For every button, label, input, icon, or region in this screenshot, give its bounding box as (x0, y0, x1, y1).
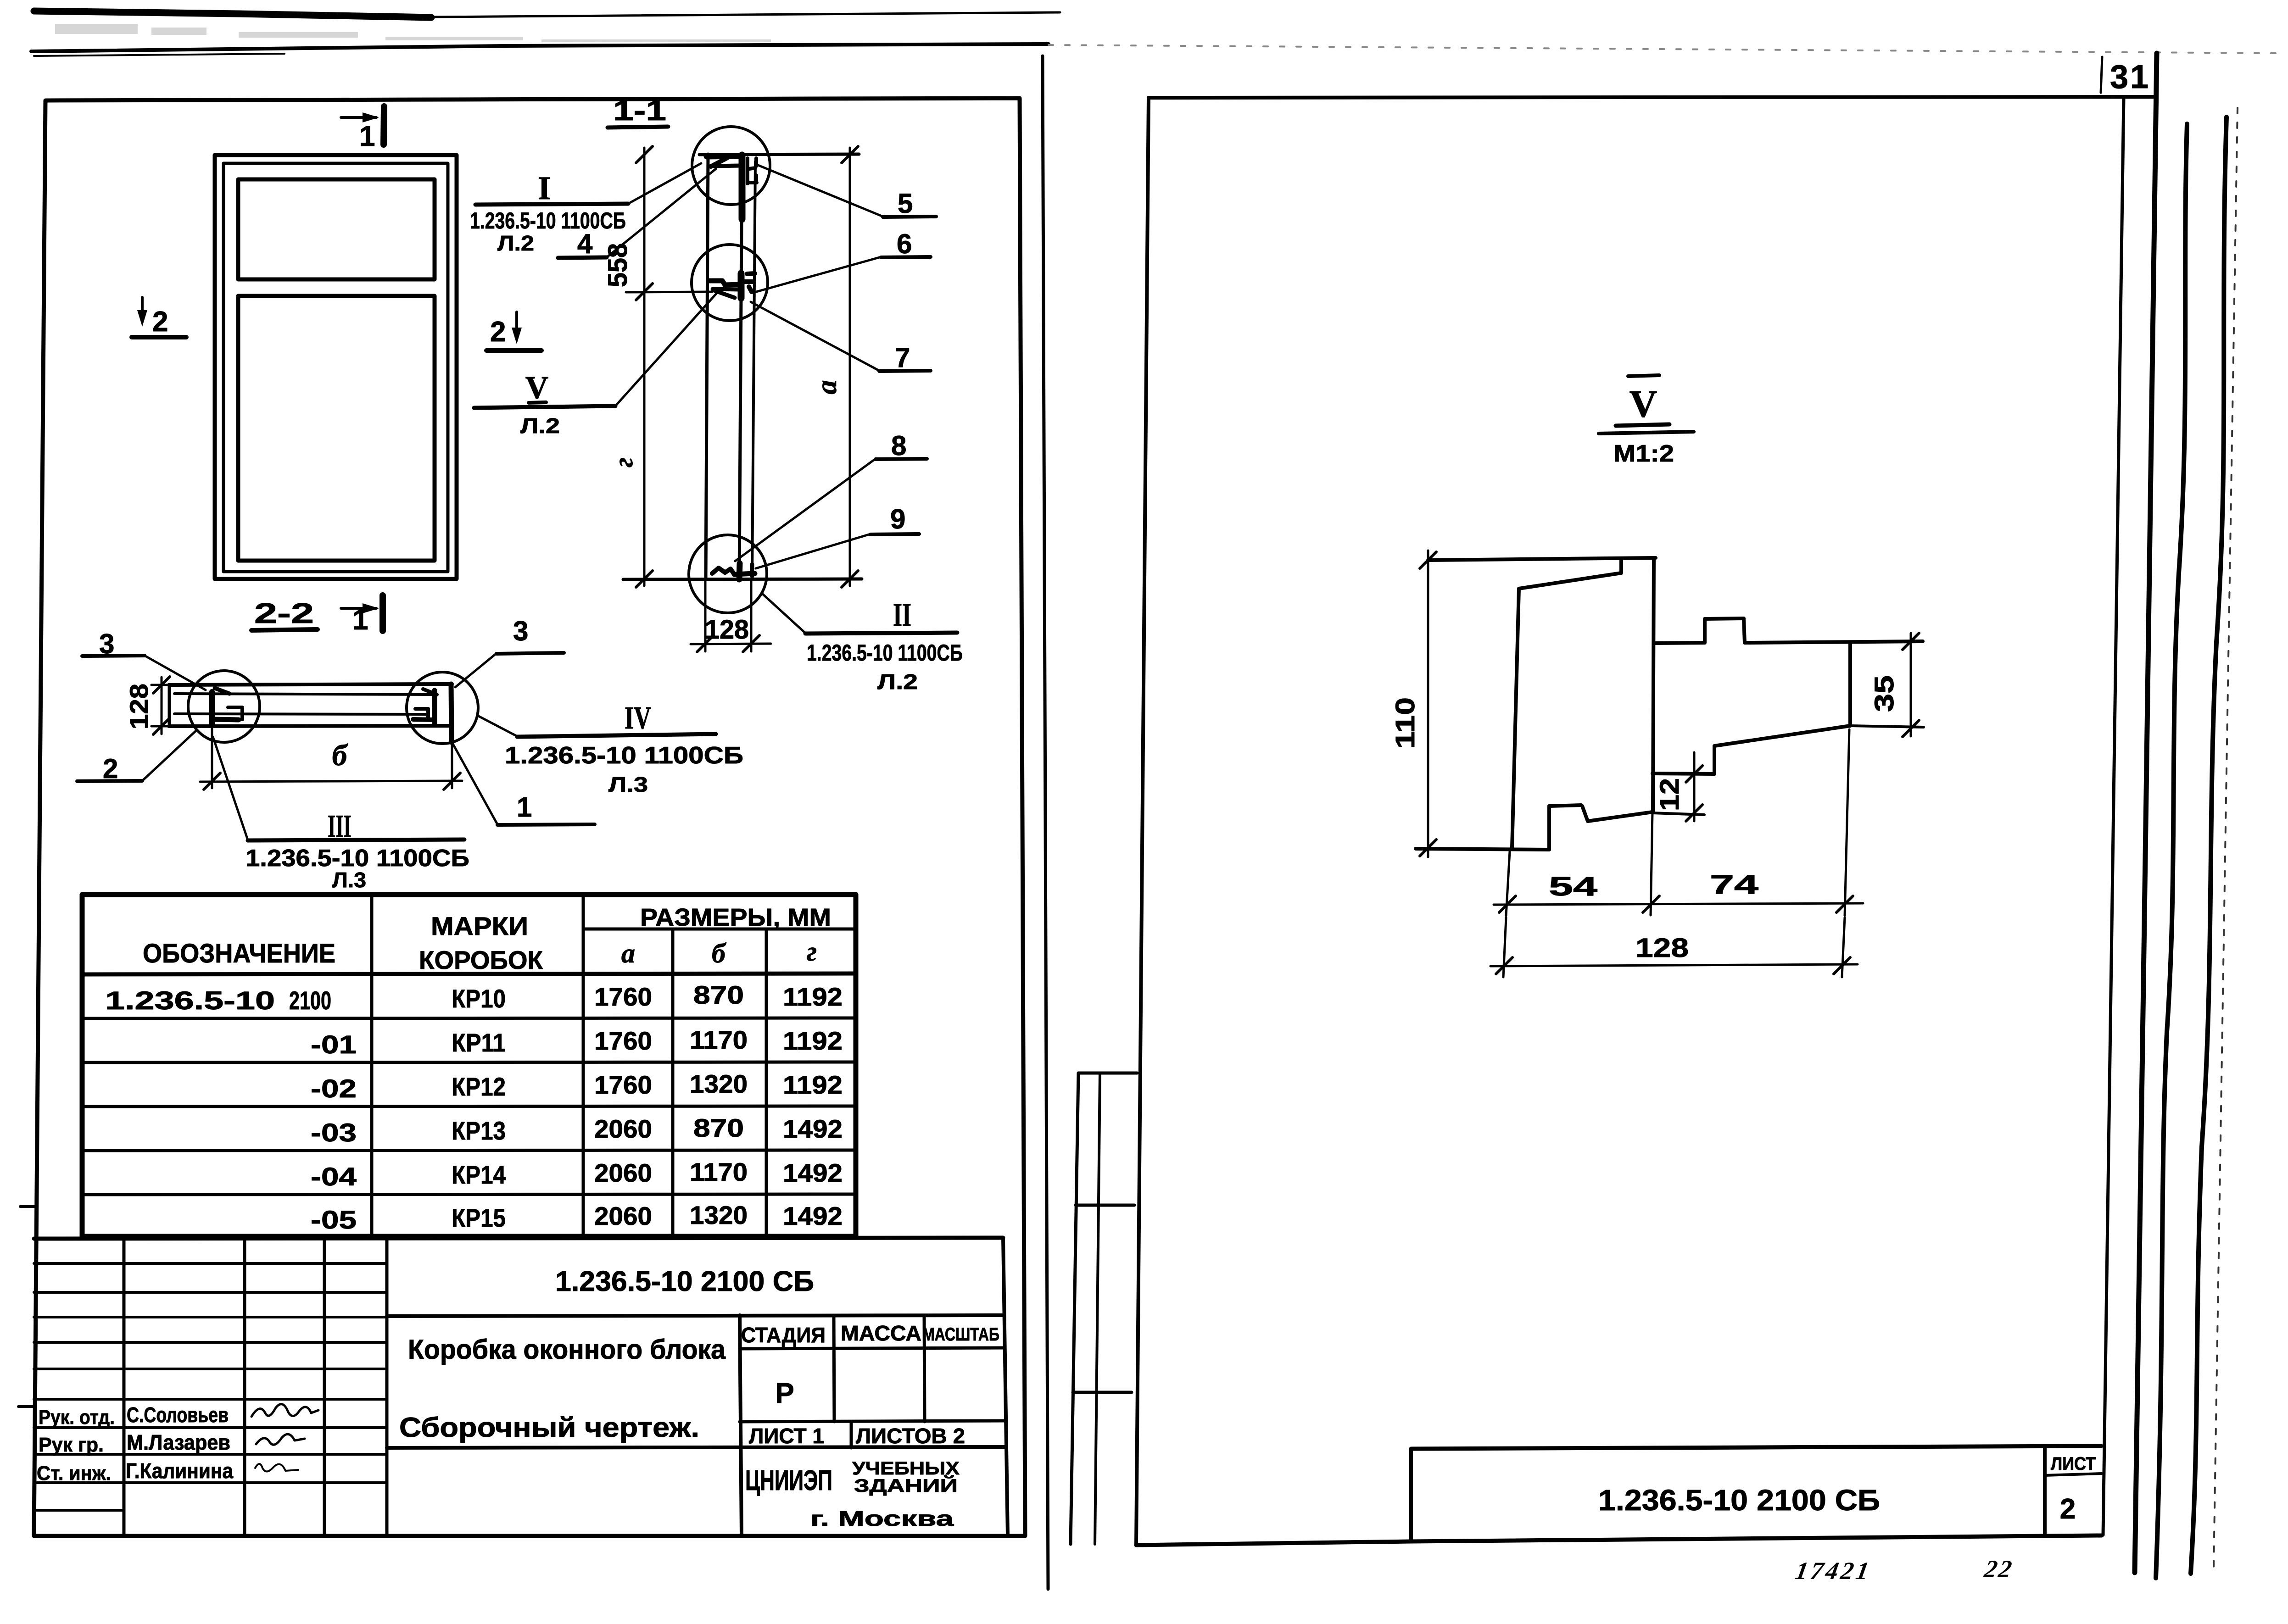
svg-text:КР12: КР12 (452, 1072, 506, 1101)
svg-text:КР13: КР13 (452, 1116, 506, 1145)
svg-text:1492: 1492 (783, 1201, 843, 1230)
svg-text:-02: -02 (311, 1074, 357, 1103)
fold tick lower (18, 1405, 35, 1408)
fold tick upper (20, 1205, 35, 1208)
right title list box divider (2045, 1474, 2102, 1475)
left dimension line (558 / г) (643, 148, 646, 586)
svg-text:КР11: КР11 (452, 1028, 506, 1057)
position 2 underline (77, 781, 142, 781)
svg-text:2100: 2100 (289, 986, 331, 1015)
svg-text:-03: -03 (311, 1118, 357, 1147)
left block bump top (1549, 805, 1581, 806)
right detail circle (407, 672, 478, 744)
dim 54/74 right extension (1845, 729, 1849, 916)
svg-text:г: г (608, 457, 638, 467)
svg-text:Л.2: Л.2 (877, 670, 918, 694)
top detail circle (692, 127, 770, 205)
right block bottom extension for 35 (1850, 726, 1924, 727)
svg-text:870: 870 (693, 980, 744, 1009)
svg-text:558: 558 (603, 243, 633, 287)
svg-text:1170: 1170 (690, 1157, 748, 1186)
left dim tick bottom (636, 571, 653, 587)
svg-text:870: 870 (693, 1113, 744, 1142)
128 dim extension left (704, 581, 707, 651)
svg-text:Рук гр.: Рук гр. (39, 1434, 104, 1456)
table outer border (82, 895, 856, 1236)
center extension line down (1651, 812, 1652, 915)
svg-text:4: 4 (577, 228, 593, 259)
svg-text:М.Лазарев: М.Лазарев (127, 1430, 230, 1454)
table column line 1 (370, 895, 374, 1236)
top scan bar 2 dotted continuation across right page (1049, 45, 2276, 53)
svg-text:СТАДИЯ: СТАДИЯ (741, 1323, 826, 1347)
node V double underline (529, 402, 546, 403)
window elevation outer box (215, 155, 457, 579)
svg-text:Р: Р (775, 1378, 794, 1409)
svg-text:2: 2 (2060, 1493, 2076, 1525)
dim 12 bottom extension (1652, 813, 1704, 815)
dim 12 ticks (1686, 766, 1702, 821)
svg-text:V: V (525, 370, 549, 406)
table column line 2 (582, 895, 585, 1236)
position 8 leader (735, 459, 876, 561)
node V long underline (474, 406, 615, 408)
section mark 2 left: underline (132, 335, 186, 339)
right page frame right edge (2103, 98, 2124, 1535)
dim 54/74 ticks (1499, 896, 1853, 912)
position 3 right underline (497, 653, 564, 654)
svg-text:128: 128 (124, 684, 153, 729)
strip inner line 1 (174, 694, 435, 695)
svg-text:-01: -01 (311, 1030, 357, 1059)
svg-text:8: 8 (891, 430, 906, 461)
strip left end cap (168, 685, 171, 726)
inventory stamp strip top (1078, 1072, 1137, 1075)
svg-text:МАРКИ: МАРКИ (431, 912, 528, 940)
svg-text:МАСШТАБ: МАСШТАБ (922, 1324, 999, 1345)
top scan bar 1 faint continuation (431, 12, 1060, 17)
svg-text:1192: 1192 (783, 1026, 843, 1055)
node V leader (615, 289, 720, 406)
svg-text:1: 1 (352, 604, 368, 636)
dim 110 ticks (1420, 552, 1436, 856)
doc number cell bottom line (387, 1315, 1003, 1316)
middle extension line (626, 292, 712, 292)
svg-text:1492: 1492 (783, 1158, 843, 1187)
svg-text:КР10: КР10 (452, 984, 506, 1013)
title/stage divider vertical (740, 1315, 742, 1536)
position 1 underline (497, 824, 595, 825)
svg-text:1: 1 (359, 121, 375, 152)
node I underline (475, 204, 628, 205)
svg-text:КР14: КР14 (452, 1160, 506, 1189)
section mark 1 bottom: arrowhead (363, 603, 379, 613)
right joint blob (413, 689, 437, 724)
handwritten inventory number (1793, 1557, 1874, 1585)
window elevation inner box line (223, 163, 448, 572)
frame strip left edge (706, 154, 708, 579)
position 9 underline (871, 534, 919, 534)
svg-text:Л.3: Л.3 (608, 773, 648, 796)
node IV underline (517, 734, 716, 737)
svg-text:2: 2 (152, 306, 168, 338)
right block top line with 35 extension (1654, 641, 1923, 643)
top scan bar 2 echo segment (34, 54, 285, 56)
svg-text:г. Москва: г. Москва (810, 1507, 954, 1530)
svg-text:РАЗМЕРЫ, ММ: РАЗМЕРЫ, ММ (640, 904, 831, 931)
node IV leader (478, 716, 517, 736)
svg-text:1.236.5-10 2100 СБ: 1.236.5-10 2100 СБ (1598, 1484, 1880, 1517)
svg-text:1.236.5-10 1100СБ: 1.236.5-10 1100СБ (505, 742, 743, 769)
svg-text:ЛИСТ 1: ЛИСТ 1 (749, 1424, 824, 1448)
svg-text:ОБОЗНАЧЕНИЕ: ОБОЗНАЧЕНИЕ (143, 939, 335, 968)
frame strip middle edge (739, 155, 742, 579)
detail V long rule (1599, 432, 1694, 434)
svg-text:5: 5 (898, 188, 913, 219)
b width dim line (200, 781, 462, 782)
svg-text:ЛИСТ: ЛИСТ (2051, 1454, 2096, 1474)
position 3 left underline (82, 656, 145, 656)
svg-text:Л.3: Л.3 (332, 868, 366, 892)
svg-text:128: 128 (1635, 933, 1689, 963)
position 7 leader (751, 302, 879, 371)
stamp grid row lines (34, 1263, 387, 1510)
node II leader (762, 594, 805, 633)
right block right edge (1848, 642, 1852, 726)
inventory stamp strip divider (1095, 1073, 1100, 1544)
left dim tick top (636, 146, 653, 163)
svg-text:IV: IV (625, 701, 651, 736)
svg-text:I: I (538, 170, 551, 206)
svg-text:2-2: 2-2 (254, 598, 314, 629)
right title bar left cap (1409, 1449, 1413, 1541)
svg-text:Коробка оконного блока: Коробка оконного блока (408, 1334, 726, 1365)
svg-text:г: г (807, 936, 817, 967)
stamp grid column 3 (323, 1239, 326, 1536)
section 1-1 label underline (608, 127, 668, 128)
approval row 3 signature (255, 1464, 298, 1472)
position 4 underline (558, 257, 607, 258)
svg-text:1320: 1320 (690, 1069, 748, 1098)
svg-text:2060: 2060 (594, 1158, 652, 1187)
position 5 underline (883, 217, 936, 217)
dim 54/74 line (1494, 903, 1863, 905)
bottom joint blob (712, 563, 755, 579)
svg-text:V: V (1630, 383, 1657, 425)
svg-text:1192: 1192 (783, 982, 843, 1011)
stamp grid column 4 (385, 1239, 389, 1536)
row line 2 (82, 1062, 856, 1062)
b width dim extension left (211, 729, 213, 788)
dim 35 ticks (1903, 633, 1919, 737)
strip top line (169, 684, 452, 685)
right page frame top edge (1149, 97, 2155, 98)
svg-text:35: 35 (1869, 675, 1899, 712)
left block bottom foot line with dim extension (1416, 849, 1549, 850)
128 height dim line (161, 677, 163, 734)
top cap / extension line (699, 154, 859, 155)
svg-text:31: 31 (2110, 59, 2150, 95)
right page frame left edge (1136, 98, 1149, 1545)
row line 1 (82, 1018, 856, 1018)
svg-text:б: б (712, 938, 726, 968)
left joint blob (212, 688, 242, 724)
table column line b/g (765, 929, 768, 1236)
left block top inner slant (1519, 573, 1621, 589)
middle joint blob (709, 273, 755, 298)
right dim tick top (842, 146, 858, 163)
svg-text:12: 12 (1655, 778, 1685, 811)
scan smudge band top-left (55, 24, 771, 42)
top scan bar 2 (31, 44, 1049, 51)
svg-text:1760: 1760 (594, 1026, 652, 1055)
128 dim line (691, 644, 771, 644)
binding dotted line (2214, 108, 2238, 1567)
position 2 leader (142, 730, 196, 781)
svg-text:9: 9 (890, 504, 905, 534)
svg-text:1192: 1192 (783, 1070, 843, 1099)
svg-text:КР15: КР15 (452, 1203, 506, 1232)
section mark 1 bottom: arrow line (341, 607, 376, 610)
dim 35 line (1910, 633, 1912, 736)
dim 128 ticks (1496, 957, 1850, 974)
inventory stamp strip row line 2 (1073, 1391, 1132, 1394)
section mark 2 left: arrow (141, 297, 144, 321)
left block sill slant (1588, 812, 1652, 821)
svg-text:II: II (893, 596, 911, 633)
section mark 1 top: arrowhead (363, 112, 379, 122)
razmery sub-header line (583, 928, 856, 931)
right block bottom slant (1714, 726, 1850, 746)
left block bump right slant (1582, 806, 1588, 821)
128 height dim extension top (151, 684, 171, 686)
svg-text:МАССА: МАССА (841, 1321, 921, 1345)
binding wavy line 2 (2191, 117, 2227, 1574)
svg-text:М1:2: М1:2 (1613, 440, 1674, 467)
node I leader (628, 163, 701, 204)
left block left edge (1512, 589, 1519, 848)
right dim tick bottom (842, 571, 858, 587)
svg-text:17421: 17421 (1793, 1557, 1874, 1585)
position 5 leader (758, 165, 883, 217)
right block step horizontal (1652, 773, 1714, 774)
svg-text:С.Соловьев: С.Соловьев (127, 1403, 229, 1427)
svg-text:54: 54 (1549, 872, 1597, 901)
binding line thick (2135, 53, 2157, 1573)
header bottom line (82, 973, 856, 974)
center vertical edge (1653, 558, 1654, 812)
svg-text:1320: 1320 (690, 1201, 748, 1229)
upper sash pane (238, 179, 435, 279)
svg-text:2060: 2060 (594, 1201, 652, 1230)
svg-text:1492: 1492 (783, 1114, 843, 1143)
position 7 underline (879, 371, 931, 371)
section 2-2 label underline (251, 629, 318, 630)
svg-text:Л.2: Л.2 (520, 414, 560, 438)
row line 5 (82, 1194, 856, 1195)
left detail circle (188, 671, 260, 742)
svg-text:1760: 1760 (594, 982, 652, 1011)
section mark 2 right: arrow (515, 312, 518, 339)
svg-text:110: 110 (1390, 697, 1420, 749)
128 dim ticks (697, 635, 759, 652)
approval row 1 signature (251, 1404, 318, 1417)
position 1 leader (452, 742, 497, 824)
position 3 left leader (145, 656, 206, 690)
b width dim ticks (204, 773, 460, 790)
dim 128 line (1490, 964, 1858, 966)
svg-text:74: 74 (1710, 870, 1758, 900)
title block top border (34, 1238, 1003, 1239)
svg-text:128: 128 (705, 615, 749, 645)
svg-text:а: а (621, 938, 635, 968)
stamp grid column 1 (123, 1239, 126, 1536)
dim 110 line (1427, 551, 1429, 857)
node III leader (213, 737, 248, 840)
svg-text:Л.2: Л.2 (497, 231, 534, 255)
node III underline (248, 840, 464, 840)
top joint blob (707, 155, 757, 219)
svg-text:3: 3 (513, 616, 528, 646)
right block tab (1705, 618, 1745, 643)
stage header bottom line (740, 1348, 1004, 1349)
svg-text:6: 6 (897, 228, 912, 259)
left dim tick middle (636, 284, 653, 300)
svg-text:2: 2 (490, 316, 506, 348)
binding wavy line 1 (2156, 124, 2187, 1578)
svg-text:ЦНИИЭП: ЦНИИЭП (745, 1465, 832, 1496)
stage column divider 1 (834, 1316, 834, 1422)
svg-text:1.236.5-10 1100СБ: 1.236.5-10 1100СБ (807, 640, 963, 666)
svg-text:Сборочный чертеж.: Сборочный чертеж. (399, 1412, 699, 1443)
detail V short underline (1616, 424, 1669, 426)
128 height dim extension bottom (151, 725, 171, 728)
page number 31 box tick (2101, 57, 2102, 93)
right title list box left edge (2043, 1447, 2047, 1536)
page divider line (1043, 56, 1048, 1589)
list row divider (850, 1422, 853, 1448)
frame strip right sash line (752, 161, 755, 576)
position 6 underline (881, 257, 931, 257)
left block top notch vertical (1619, 559, 1623, 573)
list row top line (740, 1421, 1005, 1422)
svg-text:-05: -05 (311, 1205, 357, 1234)
dim 54/74 left extension (1506, 851, 1510, 916)
right title bar top line (1411, 1446, 2101, 1449)
svg-text:1: 1 (517, 792, 532, 823)
section mark 1 top: arrow line (341, 116, 376, 119)
dim 12 line (1693, 752, 1696, 821)
svg-text:Ст. инж.: Ст. инж. (37, 1462, 111, 1485)
svg-text:Рук. отд.: Рук. отд. (39, 1406, 115, 1429)
128 dim extension right (750, 581, 753, 651)
position 8 underline (876, 459, 927, 459)
section mark 2 right: underline (486, 348, 541, 353)
svg-text:22: 22 (1982, 1555, 2015, 1583)
position 9 leader (756, 534, 871, 568)
approval row 2 signature (256, 1434, 305, 1445)
strip inner line 2 (174, 714, 427, 714)
stage column divider 2 (924, 1316, 925, 1422)
table column line a/b (671, 929, 675, 1236)
inventory stamp strip left edge (1071, 1073, 1078, 1544)
title block right border (1003, 1238, 1008, 1536)
lower sash pane (238, 296, 435, 561)
svg-text:КОРОБОК: КОРОБОК (419, 945, 543, 974)
top scan bar 1 (dark left segment) (34, 11, 431, 17)
svg-text:ЛИСТОВ 2: ЛИСТОВ 2 (856, 1424, 965, 1448)
position 6 leader (756, 257, 881, 292)
right dimension line (а) (849, 148, 851, 586)
strip right end cap (451, 684, 452, 742)
svg-text:1170: 1170 (690, 1025, 748, 1054)
detail V overline (1628, 375, 1659, 376)
stamp grid column 2 (243, 1239, 246, 1536)
left block top line with dim extension (1428, 558, 1656, 560)
right block step vertical (1713, 746, 1716, 774)
svg-text:1-1: 1-1 (613, 95, 666, 127)
svg-text:Г.Калинина: Г.Калинина (126, 1459, 233, 1483)
inventory stamp strip row line 1 (1076, 1204, 1134, 1207)
svg-text:б: б (332, 739, 349, 772)
row line 4 (82, 1150, 856, 1151)
dim 128 extensions (1503, 918, 1845, 977)
row line 3 (82, 1106, 856, 1107)
section mark 1 top: bar (384, 106, 384, 145)
svg-text:ЗДАНИЙ: ЗДАНИЙ (854, 1475, 958, 1496)
position 4 leader (607, 169, 716, 257)
middle detail circle (692, 245, 768, 321)
right page frame bottom edge (1136, 1535, 2102, 1545)
bottom detail circle (689, 535, 767, 613)
left block foot right vertical (1547, 806, 1551, 850)
svg-text:2060: 2060 (594, 1114, 652, 1143)
svg-text:7: 7 (895, 342, 910, 373)
title cell bottom line (387, 1447, 1005, 1448)
bottom cap / extension line (623, 579, 862, 579)
svg-text:а: а (811, 380, 843, 395)
svg-text:-04: -04 (311, 1162, 357, 1191)
128 height dim ticks (153, 677, 170, 734)
svg-text:1.236.5-10 2100 СБ: 1.236.5-10 2100 СБ (555, 1266, 814, 1297)
svg-text:1760: 1760 (594, 1070, 652, 1099)
strip bottom line (169, 726, 452, 726)
node II underline (805, 633, 957, 634)
svg-text:1.236.5-10: 1.236.5-10 (105, 986, 275, 1015)
position 3 right leader (455, 653, 497, 687)
svg-text:1.236.5-10 1100СБ: 1.236.5-10 1100СБ (470, 208, 626, 234)
section mark 1 bottom: bar (379, 595, 386, 631)
handwritten second number (1982, 1555, 2015, 1583)
b width dim extension right (451, 744, 453, 788)
left page frame (34, 98, 1025, 1536)
